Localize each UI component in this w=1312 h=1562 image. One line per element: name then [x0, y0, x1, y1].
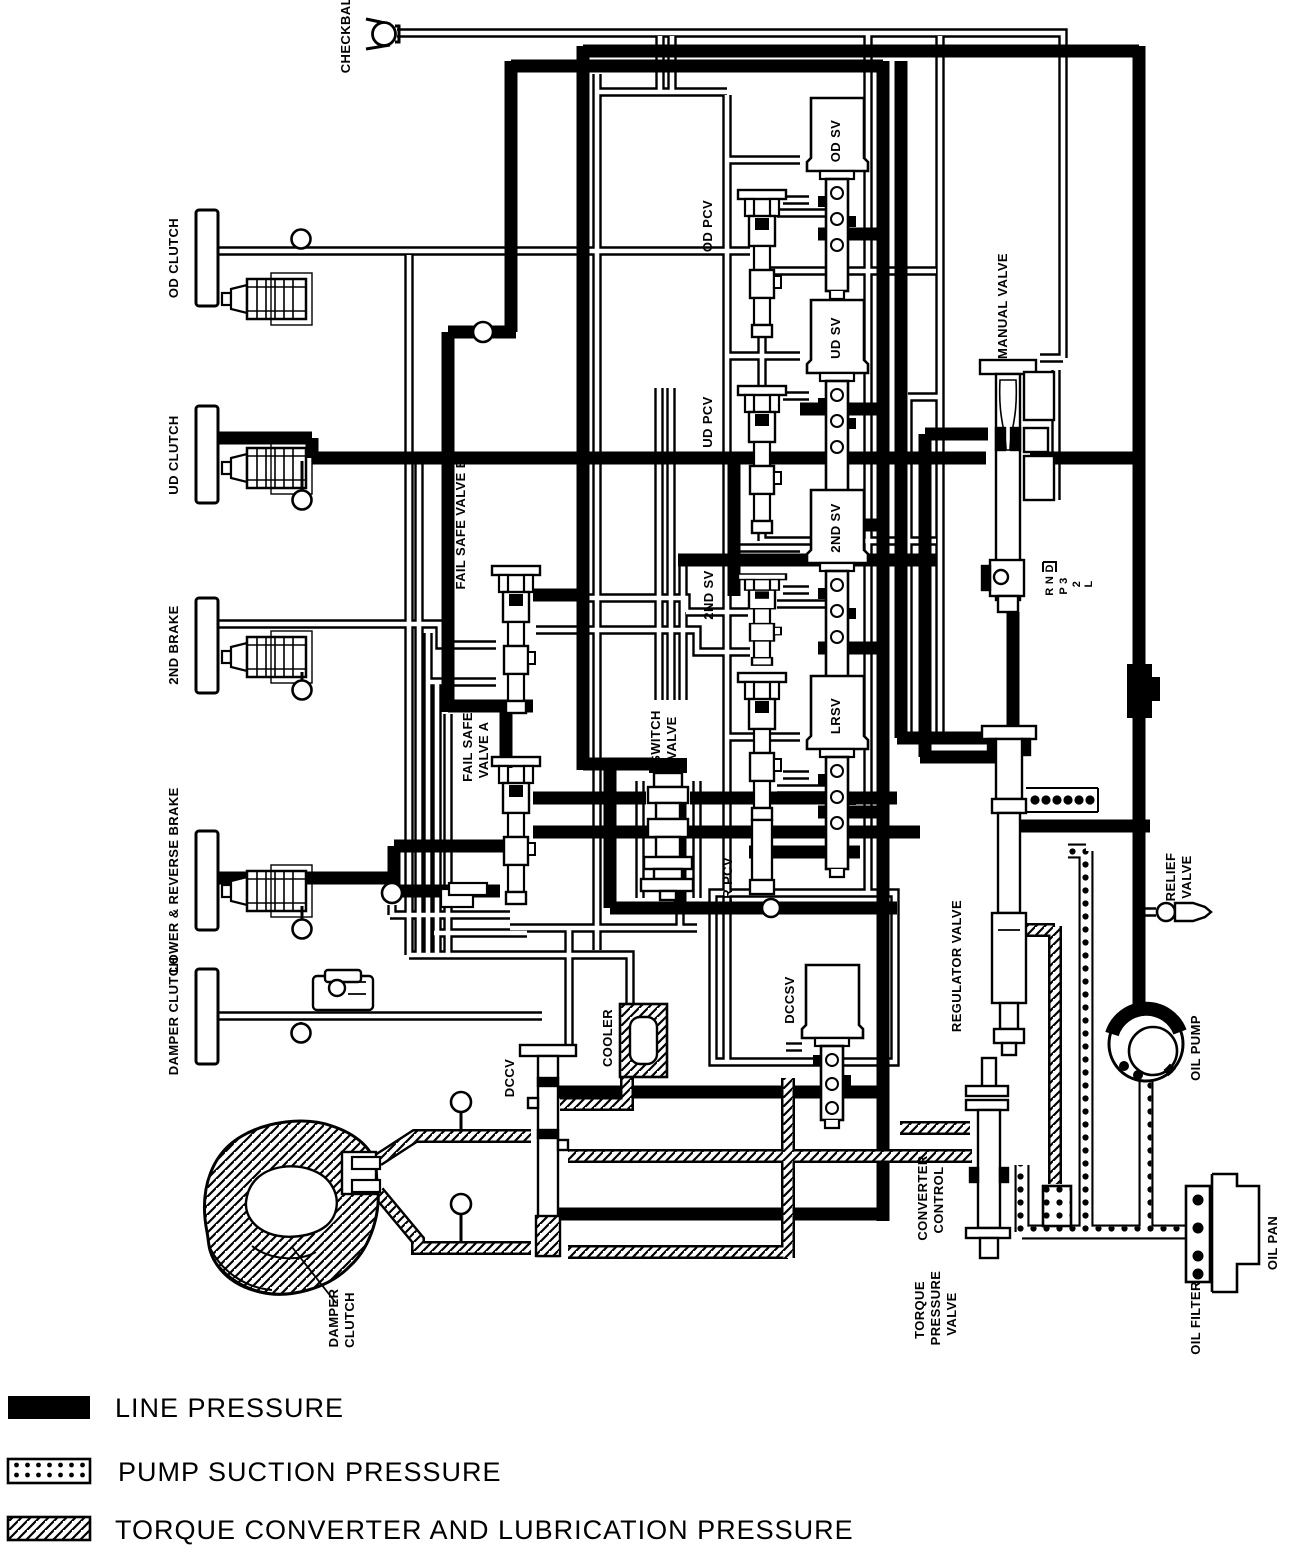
- checkball DCCV upper: [460, 1112, 463, 1132]
- wire: LR PCV to LRSV line: [749, 846, 860, 859]
- checkball top component: [366, 19, 399, 49]
- torque converter control valve: [966, 1058, 1010, 1258]
- wire: switch valve rail upper: [533, 792, 897, 805]
- junction ball line pressure top: [473, 322, 493, 342]
- wire: DCCV pressure line upper: [558, 1086, 883, 1099]
- LR PCV spool: [738, 673, 786, 820]
- OD PCV spool: [738, 190, 786, 337]
- wire: line pressure vertical x583: [583, 46, 651, 770]
- svg-text:OIL FILTER: OIL FILTER: [1188, 1281, 1203, 1355]
- wire: switch valve drop: [610, 764, 897, 908]
- svg-text:UD PCV: UD PCV: [700, 396, 715, 448]
- svg-text:SWITCH: SWITCH: [648, 710, 663, 764]
- checkball DCCV lower: [460, 1214, 463, 1243]
- svg-text:RELIEF: RELIEF: [1163, 853, 1178, 902]
- svg-text:DCCSV: DCCSV: [782, 976, 797, 1024]
- 2nd PCV spool: [738, 574, 786, 665]
- svg-text:COOLER: COOLER: [600, 1009, 615, 1067]
- svg-text:DAMPER CLUTCH: DAMPER CLUTCH: [166, 957, 181, 1076]
- svg-text:PRESSURE: PRESSURE: [928, 1271, 943, 1346]
- svg-text:OD PCV: OD PCV: [700, 200, 715, 252]
- LR PCV lower stem: [752, 820, 772, 880]
- svg-text:LOWER & REVERSE BRAKE: LOWER & REVERSE BRAKE: [166, 787, 181, 972]
- legend line pressure swatch: [8, 1396, 90, 1419]
- checkball damper: [300, 1022, 303, 1024]
- svg-text:OD SV: OD SV: [828, 120, 843, 162]
- svg-text:FAIL SAFE VALVE B: FAIL SAFE VALVE B: [453, 458, 468, 589]
- wire: switch valve rail lower: [533, 826, 920, 839]
- OD clutch plate: [196, 210, 218, 306]
- switch valve black cap: [649, 758, 687, 773]
- wire: line pressure vertical x883: [877, 61, 890, 1221]
- wire: 2nd line to manual valve: [678, 554, 936, 567]
- svg-text:CONVERTER: CONVERTER: [915, 1155, 930, 1240]
- checkball UD: [301, 461, 304, 492]
- svg-text:OIL PAN: OIL PAN: [1265, 1216, 1280, 1270]
- svg-text:REGULATOR VALVE: REGULATOR VALVE: [949, 900, 964, 1032]
- torque converter body: [204, 1121, 380, 1303]
- wire: line pressure main trunk right: [1133, 46, 1146, 1005]
- svg-text:PUMP SUCTION PRESSURE: PUMP SUCTION PRESSURE: [118, 1457, 502, 1487]
- damper clutch plate: [196, 969, 218, 1064]
- DCCV spool: [520, 1045, 576, 1256]
- DCCSV solenoid: [802, 965, 863, 1128]
- low reverse accumulator: [222, 865, 312, 917]
- svg-text:VALVE: VALVE: [1179, 855, 1194, 898]
- legend torque converter swatch: [8, 1517, 90, 1540]
- svg-text:CONTROL: CONTROL: [931, 1166, 946, 1233]
- wire: center riser x901: [897, 61, 1020, 738]
- svg-text:VALVE A: VALVE A: [476, 721, 491, 778]
- svg-text:LINE PRESSURE: LINE PRESSURE: [115, 1393, 344, 1423]
- svg-text:OIL PUMP: OIL PUMP: [1188, 1015, 1203, 1081]
- svg-text:2ND BRAKE: 2ND BRAKE: [166, 605, 181, 684]
- svg-text:CLUTCH: CLUTCH: [342, 1292, 357, 1348]
- UD PCV spool: [738, 386, 786, 533]
- wire: fail safe B stub: [533, 589, 583, 602]
- switch valve spool: [641, 773, 693, 900]
- svg-text:VALVE: VALVE: [944, 1292, 959, 1335]
- svg-text:UD CLUTCH: UD CLUTCH: [166, 415, 181, 494]
- OD SV solenoid: [807, 98, 868, 299]
- svg-text:P 3: P 3: [1058, 577, 1070, 594]
- wire: LRSV stub: [818, 806, 877, 819]
- damper clutch control valve: [313, 970, 373, 1010]
- wire: DCCV pressure line lower: [558, 1208, 883, 1221]
- torque converter / lubrication hatched channels: [378, 926, 1055, 1258]
- UD accumulator: [222, 442, 312, 494]
- lower and reverse brake plate: [196, 831, 218, 930]
- junction ball switch valve: [762, 899, 780, 917]
- fail safe valve B spool: [492, 566, 540, 713]
- oil filter: [1186, 1186, 1210, 1282]
- wire: regulator to trunk: [1010, 820, 1150, 833]
- svg-text:UD SV: UD SV: [828, 317, 843, 359]
- legend pump suction swatch: [8, 1459, 90, 1483]
- wire: line pressure top rail B: [511, 60, 883, 73]
- regulator valve spool: [982, 726, 1036, 1055]
- svg-text:TORQUE: TORQUE: [912, 1281, 927, 1339]
- checkball OD: [292, 230, 311, 249]
- svg-text:DAMPER: DAMPER: [326, 1288, 341, 1347]
- wire: line pressure top rail A: [583, 45, 1139, 58]
- UD clutch plate: [196, 406, 218, 503]
- checkball 2nd: [301, 672, 304, 681]
- wire: manual to regulator: [1007, 612, 1020, 732]
- wire: low-reverse feed: [218, 846, 506, 891]
- relief valve: [1157, 903, 1175, 921]
- oil pump: [1109, 1007, 1183, 1081]
- svg-text:LRSV: LRSV: [828, 698, 843, 734]
- svg-text:2: 2: [1071, 581, 1083, 587]
- wire: UD SV stub: [800, 403, 877, 416]
- wire: 2nd SV stubs: [818, 525, 877, 648]
- svg-text:TORQUE CONVERTER AND LUBRICATI: TORQUE CONVERTER AND LUBRICATION PRESSUR…: [115, 1515, 854, 1545]
- 2nd brake plate: [196, 598, 218, 693]
- regulator spring: [1026, 788, 1098, 812]
- wire: manual valve left riser: [920, 434, 995, 757]
- oil pan: [1212, 1174, 1259, 1292]
- pump suction dotted channels: [1022, 851, 1186, 1232]
- wire: switch valve inner drop: [674, 802, 687, 908]
- svg-text:2ND SV: 2ND SV: [701, 570, 716, 619]
- svg-text:L: L: [1083, 580, 1095, 587]
- wire: OD SV stub: [818, 228, 877, 241]
- svg-text:2ND SV: 2ND SV: [828, 503, 843, 552]
- fail safe A bypass block: [441, 883, 487, 907]
- svg-text:LR PCV: LR PCV: [720, 857, 735, 907]
- svg-text:VALVE: VALVE: [664, 716, 679, 759]
- 2nd SV solenoid: [807, 490, 868, 691]
- line pressure thick lines: [218, 46, 1150, 1221]
- wire: gallery wall riser: [728, 458, 741, 596]
- svg-text:R N D: R N D: [1044, 564, 1056, 595]
- svg-text:OD CLUTCH: OD CLUTCH: [166, 218, 181, 298]
- svg-text:CHECKBALL: CHECKBALL: [338, 0, 353, 73]
- svg-text:FAIL SAFE: FAIL SAFE: [460, 712, 475, 782]
- 2nd brake accumulator: [222, 631, 312, 683]
- fail safe valve A spool: [492, 757, 540, 904]
- svg-text:MANUAL VALVE: MANUAL VALVE: [995, 253, 1010, 359]
- manual valve spool: [980, 360, 1054, 612]
- svg-text:DCCV: DCCV: [502, 1059, 517, 1097]
- LRSV solenoid: [807, 676, 868, 877]
- UD SV solenoid: [807, 300, 868, 501]
- wire: UD clutch main line: [218, 438, 1139, 458]
- wire: line pressure drop left: [448, 61, 533, 768]
- OD accumulator: [222, 273, 312, 325]
- cooler: [620, 1004, 667, 1077]
- junction ball low reverse: [382, 883, 402, 903]
- thin hydraulic channels: [218, 33, 1156, 1062]
- suction strainer block: [1043, 1186, 1071, 1226]
- checkball low reverse: [301, 906, 304, 920]
- trunk coupler bulge: [1127, 664, 1152, 718]
